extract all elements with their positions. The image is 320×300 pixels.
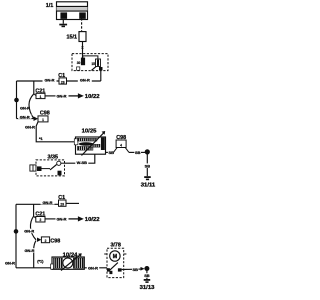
svg-text:SB: SB <box>108 150 114 155</box>
terminal bar right <box>101 138 105 150</box>
svg-text:4: 4 <box>120 143 122 147</box>
wire C1 stub <box>66 202 79 204</box>
switch bottom pin <box>99 67 103 70</box>
wire 10/24 to 3/78 (GN-R) <box>84 267 107 269</box>
fan switch 3/35 (dashed box) <box>36 160 65 176</box>
element bar <box>79 142 93 145</box>
switch blade <box>50 165 57 170</box>
wire bus corner into C98 <box>17 118 34 120</box>
connector C98 pin 2 <box>41 237 49 243</box>
svg-text:GN-R: GN-R <box>25 248 35 253</box>
svg-text:GN-R: GN-R <box>20 114 30 119</box>
label GN-R <box>41 200 55 205</box>
wire C21 output <box>45 218 56 220</box>
blower motor 10/24 box <box>52 257 84 269</box>
battery 1/1 <box>57 2 88 20</box>
label GN-R <box>23 229 36 234</box>
exit pin <box>118 268 122 271</box>
svg-text:10/22: 10/22 <box>85 217 100 223</box>
wire below C98 to bottom run <box>34 241 36 268</box>
resistor unit 10/25 box <box>76 137 106 154</box>
svg-text:GN-R: GN-R <box>57 216 67 221</box>
svg-text:(*1): (*1) <box>37 258 44 263</box>
svg-text:GN-R: GN-R <box>57 93 67 98</box>
label SB <box>108 150 115 155</box>
switch terminal left <box>37 166 42 171</box>
svg-text:1: 1 <box>42 118 44 122</box>
wire switch output down <box>100 70 102 81</box>
connector stub left <box>30 165 36 171</box>
connector C1 pin 28 <box>59 78 67 85</box>
wire horizontal to C1 <box>16 203 59 205</box>
svg-text:GN-R: GN-R <box>45 78 55 83</box>
wire branch to C21 <box>33 204 35 216</box>
arrow into C98 <box>34 116 39 121</box>
pin tick left <box>104 253 107 255</box>
terminal 15 <box>96 59 101 67</box>
wire S-curve C21 to C98 <box>30 216 36 240</box>
svg-text:GN-R: GN-R <box>5 260 15 265</box>
svg-text:31/13: 31/13 <box>140 285 155 291</box>
lead into C21 <box>34 94 37 96</box>
switch bottom terminal <box>58 171 62 176</box>
svg-text:GN-R: GN-R <box>25 125 35 130</box>
label W-SB <box>75 160 88 165</box>
motor element right <box>73 258 83 268</box>
wire 10/25 to C98 (SB) <box>106 151 114 153</box>
connector C98 pin 4 <box>113 140 129 152</box>
fuse 15/1 <box>79 32 86 42</box>
adjust arrow <box>82 131 106 156</box>
rear fan switch 3/78 (dashed box) <box>107 248 124 277</box>
svg-text:GN-R: GN-R <box>43 200 53 205</box>
adjust arrow <box>61 253 82 270</box>
svg-text:SB: SB <box>144 273 150 278</box>
wire 3/35 to 10/25 (W-SB) <box>65 154 95 163</box>
connector C21 pin 2 <box>36 217 45 223</box>
svg-text:1: 1 <box>40 95 42 99</box>
ignition switch 3/1 (dashed box) <box>72 54 108 71</box>
svg-text:30: 30 <box>77 61 81 65</box>
connector C98 pin 1 <box>38 116 48 122</box>
svg-text:W-SB: W-SB <box>77 160 87 165</box>
label SB <box>134 150 141 155</box>
wire fuse to ignition switch <box>82 42 84 59</box>
heater element top <box>77 138 97 141</box>
label SB <box>132 267 138 272</box>
arrow to 10/22 <box>69 216 84 221</box>
svg-text:31/11: 31/11 <box>141 183 156 189</box>
wire junction to ground <box>146 154 148 176</box>
svg-text:2: 2 <box>45 239 47 243</box>
svg-text:GN-R: GN-R <box>80 78 90 83</box>
svg-text:GN-R: GN-R <box>20 105 30 110</box>
left bus wire (bottom section) <box>15 204 17 267</box>
arrow into junction <box>141 267 145 271</box>
junction dot <box>14 229 19 234</box>
svg-text:M: M <box>113 254 117 260</box>
wire below C98 down to 10/25 <box>36 122 75 142</box>
label SB <box>144 163 150 168</box>
wire C21 output <box>45 95 56 97</box>
wire battery to fuse (dashed) <box>81 18 83 31</box>
svg-text:GN-R: GN-R <box>88 265 98 270</box>
wire junction to ground <box>146 271 148 280</box>
wire 3/78 to junction (SB) <box>122 268 141 270</box>
svg-text:28: 28 <box>61 80 65 84</box>
wire branch to C21 <box>33 81 35 94</box>
svg-text:SB: SB <box>132 267 138 272</box>
svg-text:GN-R: GN-R <box>24 229 34 234</box>
label GN-R <box>24 248 36 253</box>
terminal 30 <box>81 58 85 66</box>
switch blade <box>91 66 96 70</box>
ground under battery left terminal <box>59 19 67 27</box>
connector C1 pin 29 <box>59 200 67 207</box>
ground 31/11 <box>144 176 151 180</box>
svg-text:29: 29 <box>60 203 64 207</box>
motor circle <box>63 258 73 268</box>
junction node <box>144 266 149 271</box>
svg-text:SB: SB <box>145 163 151 168</box>
wire C98 to junction (SB) <box>129 151 145 153</box>
arrow to 10/22 <box>69 93 84 98</box>
label GN-R <box>18 114 32 119</box>
svg-text:1/1: 1/1 <box>46 3 54 9</box>
lead into C21 <box>34 216 36 218</box>
switch pivot <box>57 161 61 165</box>
wire switch pivot to box edge <box>61 162 65 164</box>
wire S-curve C21 to C98 <box>29 94 34 119</box>
svg-text:10/22: 10/22 <box>85 94 100 100</box>
pin tick right <box>124 253 127 255</box>
entry pin <box>107 268 110 271</box>
wire horizontal top row <box>17 80 101 82</box>
wire inside switch <box>42 168 51 170</box>
blade terminal <box>109 271 112 274</box>
switch blade <box>109 263 118 271</box>
svg-text:2: 2 <box>39 218 41 222</box>
svg-text:C98: C98 <box>50 238 60 244</box>
svg-text:15/1: 15/1 <box>67 35 78 41</box>
label SB <box>144 273 150 278</box>
label GN-R <box>87 265 99 270</box>
pin left <box>51 264 54 269</box>
switch internal link <box>83 56 98 59</box>
left bus wire (top section) <box>16 81 18 119</box>
heater element bottom <box>77 146 93 150</box>
label GN-R <box>43 78 57 83</box>
connector C21 pin 1 <box>36 93 45 99</box>
pin on left edge <box>74 139 78 145</box>
motor symbol <box>110 251 120 261</box>
arrow into C98 <box>37 238 41 242</box>
svg-text:15: 15 <box>91 62 95 66</box>
ground 31/13 <box>144 279 151 283</box>
junction node <box>145 149 150 154</box>
motor element left <box>53 258 62 268</box>
label GN-R <box>78 78 92 83</box>
junction dot <box>14 98 19 103</box>
svg-text:SB: SB <box>135 150 141 155</box>
switch lower-left pin <box>77 67 80 70</box>
wire bottom run to 10/24 <box>16 267 52 269</box>
svg-text:10/25: 10/25 <box>82 129 97 135</box>
